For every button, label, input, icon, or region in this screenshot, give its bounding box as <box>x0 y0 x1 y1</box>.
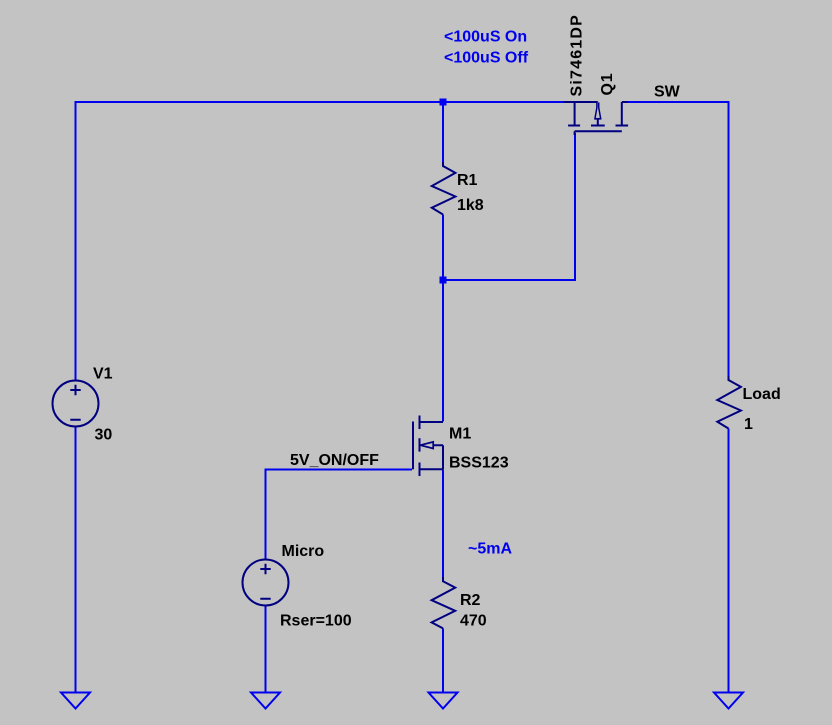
wire top rail <box>76 101 565 103</box>
resistor R2 <box>432 577 456 628</box>
wire R2 bottom <box>442 628 444 693</box>
transistor Q1 PMOS <box>563 102 628 135</box>
wire SW rail <box>624 102 729 377</box>
wire Load bottom <box>728 429 730 694</box>
voltage source V1 <box>53 381 99 427</box>
svg-text:R1: R1 <box>457 172 478 189</box>
svg-text:5V_ON/OFF: 5V_ON/OFF <box>290 452 379 469</box>
svg-text:Rser=100: Rser=100 <box>280 613 352 630</box>
node B junction at R1 bottom <box>440 277 447 284</box>
svg-text:<100uS On: <100uS On <box>444 29 527 46</box>
svg-text:<100uS Off: <100uS Off <box>444 50 529 67</box>
svg-text:BSS123: BSS123 <box>449 455 509 472</box>
wire M1 source to R2 <box>442 470 444 579</box>
ground Load <box>714 693 743 709</box>
svg-text:M1: M1 <box>449 426 471 443</box>
svg-text:Si7461DP: Si7461DP <box>569 14 586 97</box>
svg-text:R2: R2 <box>460 592 481 609</box>
transistor M1 NMOS <box>413 416 443 477</box>
wire V1 bottom <box>75 427 77 694</box>
ground V1 <box>61 693 90 709</box>
svg-text:Micro: Micro <box>282 543 325 560</box>
svg-text:SW: SW <box>654 84 681 101</box>
wire node to gate of Q1 <box>443 133 575 280</box>
svg-text:1k8: 1k8 <box>457 197 484 214</box>
wire M1 gate <box>266 470 413 560</box>
svg-text:V1: V1 <box>93 366 113 383</box>
wire R1 bottom to node <box>442 215 444 281</box>
svg-text:30: 30 <box>95 427 113 444</box>
wire node down to M1 drain <box>442 280 444 422</box>
svg-text:Q1: Q1 <box>599 73 616 96</box>
ground Micro <box>251 693 280 709</box>
svg-text:1: 1 <box>744 416 753 433</box>
wire Micro bottom <box>265 606 267 694</box>
svg-text:Load: Load <box>743 386 781 403</box>
resistor R1 <box>432 162 456 215</box>
voltage source Micro <box>243 560 289 606</box>
wire R1 top <box>442 102 444 163</box>
ground R2 <box>429 693 458 709</box>
resistor Load <box>717 376 741 429</box>
svg-text:470: 470 <box>460 613 487 630</box>
wire V1 top <box>75 101 77 381</box>
node A junction at rail/R1 <box>440 99 447 106</box>
svg-text:~5mA: ~5mA <box>468 541 512 558</box>
